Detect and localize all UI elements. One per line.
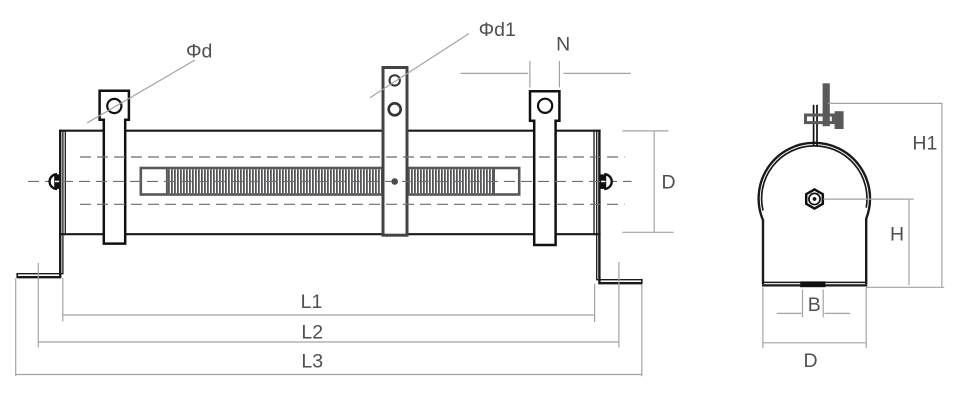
winding band outline (141, 168, 519, 195)
resistor body bottom edge (59, 233, 601, 235)
svg-text:N: N (556, 34, 570, 56)
dimension B extension left (802, 290, 804, 318)
dimension L3 extension right (641, 285, 643, 377)
dimension N extension right (558, 61, 560, 88)
tap bracket small hole (390, 75, 400, 85)
nut center dot (813, 197, 817, 201)
end view base lower line (762, 284, 867, 286)
dimension L2 extension left (37, 263, 39, 347)
dimension B line left part (777, 312, 802, 314)
leader line Phi-d (87, 60, 195, 123)
dimension H1 vertical (941, 103, 943, 287)
dimension L2 extension right (618, 262, 620, 348)
left mounting bracket plate inner line (17, 131, 63, 274)
end view base black bar (800, 281, 825, 287)
center axis dashed line (28, 180, 632, 182)
dimension H vertical (908, 199, 910, 285)
dimension D side bottom tick (622, 231, 673, 233)
dimension L1 extension left (62, 278, 64, 322)
dimension D end extension left (762, 288, 764, 348)
winding band left divider (166, 169, 168, 194)
right mounting bracket plate inner line (597, 131, 642, 280)
svg-text:B: B (808, 294, 821, 316)
left bracket foot tip (16, 273, 18, 278)
nut circle (809, 193, 820, 204)
dimension D side top tick (622, 130, 668, 132)
center nut hexagon (806, 189, 823, 208)
svg-text:H1: H1 (912, 132, 937, 154)
svg-text:Φd1: Φd1 (479, 19, 516, 41)
dimension D end line (763, 342, 866, 344)
left clamp hole (107, 99, 121, 113)
end view terminal clamp vertical bar (823, 83, 830, 126)
svg-text:Φd: Φd (186, 41, 212, 63)
end view outer shell arc (759, 143, 870, 220)
lower dashed line (80, 203, 625, 205)
dimension L3 extension left (15, 278, 17, 376)
svg-text:L1: L1 (301, 291, 323, 313)
leader line Phi-d1 (370, 34, 469, 98)
svg-text:D: D (803, 350, 817, 372)
dimension B line right part (825, 312, 851, 314)
end view terminal wire left line (813, 105, 815, 147)
right clamp hole (538, 99, 552, 113)
left terminal nub flange (54, 174, 60, 189)
tap bracket large hole (389, 103, 401, 115)
dimension B extension right (822, 290, 824, 318)
dimension bottom reference (866, 286, 944, 288)
end view inner shell arc (762, 146, 867, 211)
right bracket foot tip (641, 279, 643, 284)
dimension L1 line (63, 314, 595, 316)
dimension H1 top reference (828, 102, 942, 104)
end view right side (865, 218, 867, 284)
dimension L3 line (16, 374, 642, 376)
winding hatch (168, 169, 494, 193)
resistor body top edge (59, 130, 601, 132)
tap contact dot (391, 178, 398, 185)
dimension N line right part (564, 72, 631, 74)
dimension H leader from nut (824, 198, 914, 200)
winding band right divider (493, 169, 495, 194)
left end cap line (64, 130, 66, 235)
svg-text:L3: L3 (301, 351, 323, 373)
dimension L2 line (38, 341, 619, 343)
dimension D end extension right (865, 288, 867, 348)
svg-text:H: H (890, 223, 904, 245)
dimension L1 extension right (594, 284, 596, 322)
left terminal nub dome (50, 174, 57, 189)
end view terminal wire right line (816, 105, 818, 147)
right mounting bracket plate outer line (599, 130, 641, 284)
right terminal nub flange (600, 174, 606, 189)
right clamp band (530, 91, 559, 245)
right nub white dash (601, 181, 605, 183)
right terminal nub dome (604, 174, 611, 189)
middle adjustable tap bracket (383, 68, 407, 236)
left mounting bracket plate outer line (17, 130, 60, 278)
svg-text:L2: L2 (301, 322, 323, 344)
end view terminal clamp end block (835, 111, 844, 129)
upper dashed line (80, 156, 625, 158)
left nub white dash (55, 181, 59, 183)
svg-text:D: D (661, 171, 675, 193)
dimension N extension left (529, 61, 531, 88)
end view base upper line (763, 281, 866, 283)
end view terminal clamp horizontal frame (806, 115, 834, 123)
dimension D side vertical (653, 131, 655, 232)
dimension N line left part (461, 72, 529, 74)
right end cap line (593, 130, 595, 235)
left clamp band (100, 91, 129, 244)
end view left side (762, 220, 764, 285)
